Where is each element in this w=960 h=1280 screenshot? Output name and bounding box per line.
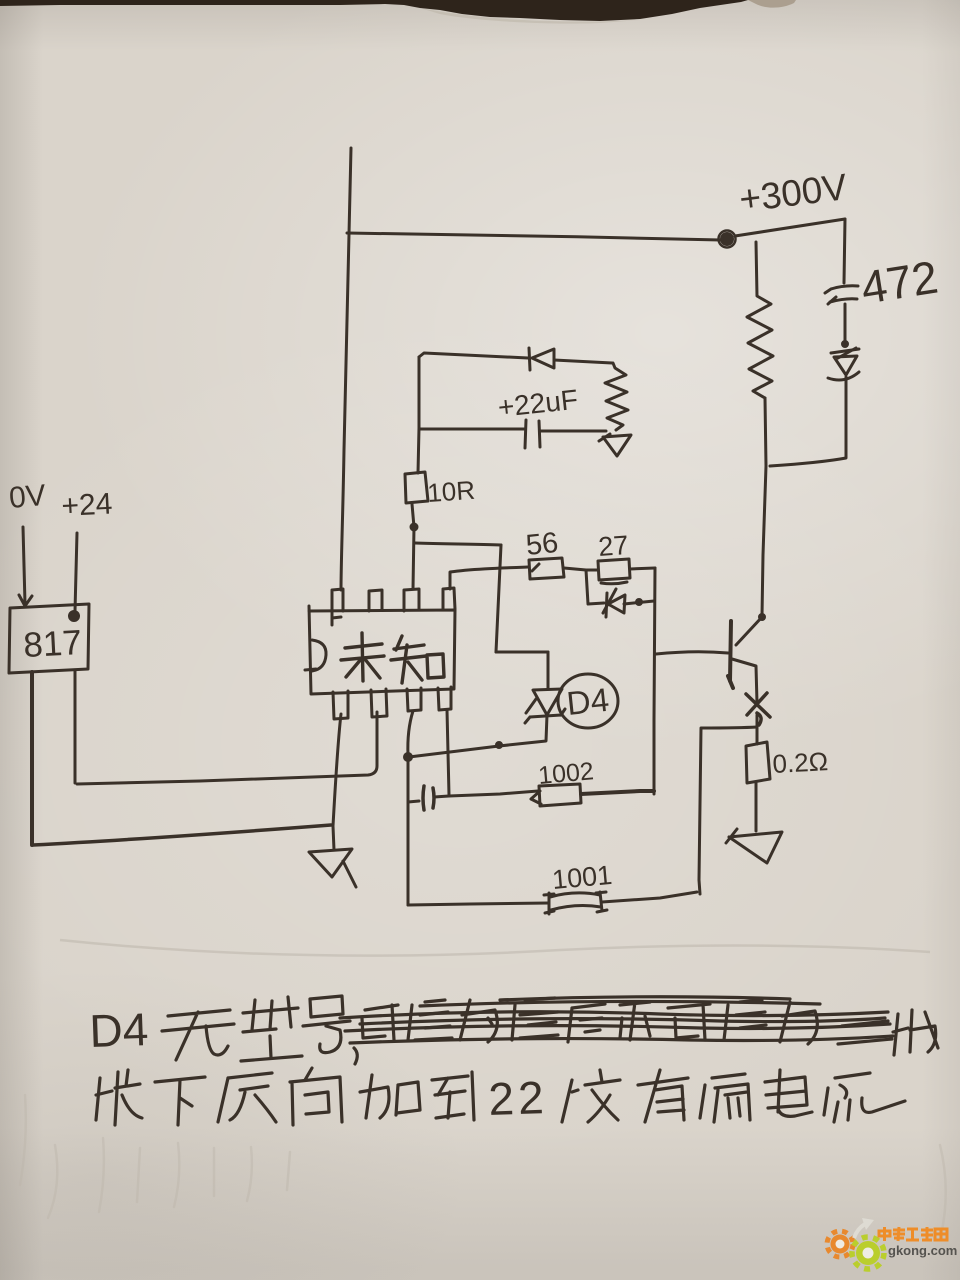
wire: 27 to base net corner	[630, 568, 655, 569]
wire: vertical down from 543 row	[496, 545, 501, 652]
wire: 1001 rail left segment	[408, 903, 549, 905]
watermark gear green	[852, 1237, 884, 1269]
note hanzi LOU	[700, 1074, 750, 1122]
IC label hanzi ZHI	[391, 636, 444, 683]
faint page imprints bottom left	[20, 1095, 946, 1235]
table background band at top of photo	[0, 0, 748, 21]
wire: zener cathode down and left to junction node	[409, 715, 547, 757]
wire: 0.2R to ground	[755, 783, 758, 831]
resistor 27 box	[598, 559, 630, 584]
wire: emitter branch left and down to bottom loop	[699, 727, 757, 894]
ground symbol (emitter)	[726, 829, 782, 863]
wire: zener anode lead	[547, 652, 550, 689]
svg-text:27: 27	[597, 530, 629, 562]
svg-text:+300V: +300V	[737, 166, 850, 220]
wire: pin8 junction to resistor 1002	[449, 791, 538, 796]
wire: drop to parallel diode	[586, 570, 604, 604]
wire: node to top-right corner	[735, 219, 845, 236]
wire: 0V lead with arrow into 817	[19, 527, 32, 606]
wire: snubber loop bottom	[419, 428, 524, 431]
IC pin 6 (bottom)	[371, 689, 387, 717]
optocoupler 817 box	[9, 604, 89, 673]
svg-text:1001: 1001	[551, 860, 613, 895]
wire: pin6 down and left to 817	[77, 712, 377, 784]
diode (loop top, cathode left)	[529, 348, 530, 370]
svg-text:0V: 0V	[8, 479, 47, 515]
wire: IC pin4 up and right to resistor 56	[450, 567, 528, 589]
resistor: HV dropper zigzag	[747, 242, 773, 398]
note hanzi XING	[241, 997, 302, 1061]
wire: 817 lower-left pin down	[30, 672, 34, 845]
wire: diode to loop right	[554, 360, 612, 363]
note hanzi DAO	[432, 1072, 474, 1120]
transistor Q1 collector lead	[736, 617, 762, 645]
watermark arrow	[854, 1224, 865, 1238]
wire: 56 to junction	[564, 568, 586, 570]
wire: pin7 to junction node	[408, 711, 413, 755]
wire: 10R branch horizontal row	[415, 543, 501, 545]
diode (parallel with 27, cathode left)	[606, 593, 607, 617]
watermark CJK text blocks	[879, 1227, 947, 1241]
diode D (right branch, pointing down)	[831, 349, 859, 353]
capacitor (1002 row) plates	[423, 786, 434, 810]
svg-text:10R: 10R	[426, 475, 476, 508]
wire: right branch down to capacitor 472	[844, 219, 845, 283]
note hanzi ER	[838, 1021, 892, 1044]
note hanzi XIA	[155, 1077, 205, 1125]
note hanzi XIANG	[290, 1068, 342, 1125]
circle around D4 label	[558, 674, 618, 728]
paper edge gap strip top right	[748, 0, 796, 8]
crossed-out hanzi NENG	[408, 1000, 452, 1040]
strikethrough lines	[340, 997, 893, 1043]
transistor Q1 bar	[728, 621, 733, 688]
note hanzi HAO	[303, 996, 350, 1053]
svg-text:22: 22	[488, 1071, 549, 1125]
svg-text:gkong.com: gkong.com	[888, 1243, 957, 1258]
wire: diode to base net	[624, 601, 654, 604]
node: +300V junction	[722, 234, 733, 245]
IC pin 3 (top)	[404, 589, 419, 611]
wire: capacitor 472 to diode	[844, 304, 847, 344]
wire: capacitor to loop right	[540, 430, 606, 433]
wire: resistor bottom to transistor collector	[762, 398, 766, 616]
IC pin 4 (top)	[443, 588, 455, 610]
transistor Q1 emitter lead	[732, 659, 757, 703]
ground symbol (loop)	[599, 434, 631, 456]
wire: V+ rail vertical from top down to IC pin 1	[341, 148, 351, 590]
IC pin 5 (bottom)	[333, 691, 348, 719]
wire: 817 lower-right pin down	[74, 670, 77, 783]
svg-text:56: 56	[524, 527, 559, 562]
note hanzi WU	[162, 1010, 234, 1060]
note hanzi CHAI	[96, 1070, 142, 1125]
IC label hanzi WEI	[341, 633, 384, 681]
wire: 1001 to right vertical	[602, 892, 697, 902]
wire: diode to bottom corner of right branch	[770, 377, 846, 466]
note hanzi YOU	[638, 1070, 688, 1122]
resistor 1001 box (wavy)	[544, 892, 607, 914]
wire: pin8 down	[447, 710, 449, 795]
note comma	[354, 1048, 357, 1064]
wire: pin3 up to resistor 10R	[412, 504, 414, 589]
svg-text:+22uF: +22uF	[496, 384, 579, 423]
crossed-out hanzi WEI2	[780, 1002, 817, 1044]
wire: horizontal to zener top	[496, 651, 548, 654]
watermark gear orange	[827, 1231, 853, 1257]
zener diode D4 (pointing down)	[533, 689, 562, 715]
wire: 10R top up the left side of snubber loop	[418, 357, 419, 473]
wire: capacitor to pin8 junction	[434, 796, 449, 797]
svg-text:0.2Ω: 0.2Ω	[772, 746, 829, 779]
crossed-out hanzi KE	[362, 1005, 398, 1040]
note hanzi LIU with tail	[824, 1073, 905, 1122]
X mark crossing emitter	[746, 693, 770, 725]
crossed-out hanzi WEI	[460, 1000, 497, 1042]
resistor 1002 box	[531, 784, 581, 806]
IC U1 body (marked 未知)	[309, 606, 455, 694]
IC pin 1 (top)	[332, 589, 343, 625]
note hanzi JI	[893, 1010, 938, 1055]
resistor 10R box	[405, 472, 428, 503]
resistor 56 box	[529, 558, 564, 579]
note hanzi JIA	[360, 1075, 420, 1118]
svg-text:D4: D4	[565, 681, 611, 722]
svg-text:1002: 1002	[537, 757, 595, 790]
IC pin 8 (bottom)	[438, 687, 451, 710]
crossed-out hanzi KE2	[668, 1004, 710, 1040]
wire: +300V horizontal rail	[347, 233, 721, 240]
wire: 817 lower-left pin to ground row	[33, 825, 331, 845]
wire: pin5 down to ground	[333, 714, 341, 850]
wire: snubber loop top	[419, 353, 528, 358]
crossed-out hanzi NENG2	[724, 1000, 766, 1040]
capacitor C 472 top plate	[825, 286, 858, 293]
wire: +24 lead into 817	[75, 533, 77, 611]
ground symbol (IC / 817)	[309, 849, 356, 887]
note hanzi FU	[562, 1070, 620, 1122]
note hanzi FAN	[218, 1073, 276, 1122]
wire: 1002 to base net bottom	[581, 791, 654, 794]
svg-text:472: 472	[857, 251, 941, 314]
capacitor 22uF plates	[525, 420, 540, 448]
crossed-out hanzi YI	[620, 1002, 650, 1040]
wire: base net vertical	[654, 568, 655, 794]
svg-text:817: 817	[22, 623, 82, 665]
capacitor C 472 bottom plate	[828, 297, 857, 304]
wire: capacitor stub	[408, 801, 419, 802]
resistor 0.2R box	[746, 742, 770, 783]
IC pin 2 (top)	[369, 590, 382, 611]
IC notch	[305, 640, 326, 671]
note hanzi DIAN	[765, 1070, 812, 1116]
crossed-out hanzi YA	[568, 1004, 605, 1042]
resistor (loop right, zigzag)	[605, 363, 628, 430]
crossed-out hanzi WEN	[512, 998, 558, 1040]
wire: junction to resistor 27	[586, 569, 597, 572]
wire: emitter to resistor 0.2	[756, 715, 759, 744]
transistor Q1 base wire	[656, 652, 728, 654]
svg-text:+24: +24	[61, 487, 114, 523]
svg-text:D4: D4	[89, 1003, 150, 1057]
IC pin 7 (bottom)	[407, 688, 421, 711]
wire: junction down to 1001 rail	[407, 757, 410, 905]
